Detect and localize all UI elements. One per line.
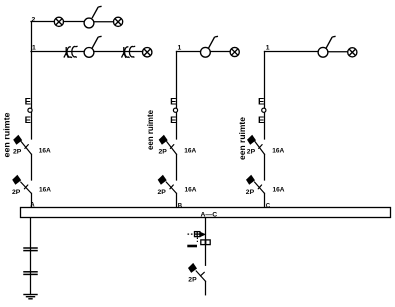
svg-text:1: 1 bbox=[266, 44, 270, 51]
ground bbox=[24, 295, 37, 299]
RCD trip unit dashed link bbox=[188, 234, 198, 242]
svg-text:16A: 16A bbox=[184, 148, 196, 155]
switch SA1 bbox=[84, 6, 102, 28]
svg-text:een ruimte: een ruimte bbox=[2, 112, 11, 158]
lamp EL1 bbox=[54, 17, 63, 26]
node circle circuit 1 bbox=[28, 108, 32, 112]
breaker QF1 body bbox=[13, 135, 22, 145]
svg-text:E: E bbox=[25, 96, 31, 107]
breaker QF2 blade bbox=[21, 182, 32, 193]
svg-text:2P: 2P bbox=[247, 148, 256, 155]
socket XS2 bbox=[122, 46, 136, 58]
svg-text:16A: 16A bbox=[185, 187, 197, 194]
svg-text:E: E bbox=[258, 115, 264, 126]
svg-text:16A: 16A bbox=[39, 187, 51, 194]
breaker QF1 blade bbox=[21, 142, 31, 155]
wire to bus circuit 3 bbox=[264, 193, 266, 208]
svg-text:16A: 16A bbox=[272, 148, 284, 155]
svg-text:2P: 2P bbox=[159, 148, 168, 155]
svg-text:A—C: A—C bbox=[201, 212, 218, 219]
svg-text:een ruimte: een ruimte bbox=[146, 109, 155, 150]
branch circuit 2 riser wire bbox=[176, 52, 178, 140]
breaker QF7 body bbox=[188, 263, 197, 273]
breaker QF3 blade bbox=[167, 142, 177, 155]
wire row 2 bbox=[31, 21, 114, 23]
breaker QF5 blade bbox=[255, 142, 265, 155]
node circle circuit 3 bbox=[262, 108, 266, 112]
breaker QF4 body bbox=[158, 175, 167, 185]
joint J1 bbox=[24, 248, 37, 251]
svg-text:een ruimte: een ruimte bbox=[238, 116, 247, 160]
RCD toroid sensor bbox=[201, 240, 210, 245]
wire row 1 bbox=[31, 51, 143, 53]
svg-text:1: 1 bbox=[178, 44, 182, 51]
lamp EL4 bbox=[230, 47, 239, 56]
breaker QF7 blade bbox=[196, 271, 206, 282]
socket XS1 bbox=[64, 46, 78, 58]
breaker QF6 blade bbox=[255, 182, 265, 193]
lamp EL2 bbox=[114, 17, 123, 26]
RCD actuator arrow bbox=[200, 232, 206, 237]
svg-text:2P: 2P bbox=[12, 189, 21, 196]
breaker QF3 body bbox=[159, 135, 168, 145]
breaker QF2 body bbox=[12, 175, 21, 185]
wire to bus circuit 2 bbox=[176, 193, 178, 208]
svg-text:E: E bbox=[170, 115, 176, 126]
breaker QF5 body bbox=[247, 135, 256, 145]
svg-text:E: E bbox=[258, 96, 264, 107]
breaker QF6 body bbox=[246, 175, 255, 185]
switch SA4 bbox=[318, 36, 336, 57]
wire between breakers circuit 3 bbox=[264, 154, 266, 180]
PE riser below bus bbox=[30, 218, 32, 295]
wire row circuit 2 bbox=[177, 51, 231, 53]
wire to bus circuit 1 bbox=[31, 193, 33, 208]
switch SA2 bbox=[84, 36, 102, 57]
svg-text:16A: 16A bbox=[273, 187, 285, 194]
breaker QF4 blade bbox=[166, 182, 176, 193]
outgoing feeder wire bbox=[205, 218, 207, 265]
node circle circuit 2 bbox=[173, 108, 177, 112]
svg-text:1: 1 bbox=[32, 44, 36, 51]
joint J2 bbox=[24, 272, 37, 275]
RCD coil bar bbox=[187, 245, 197, 248]
RCD trip unit box bbox=[195, 232, 200, 237]
svg-text:16A: 16A bbox=[39, 148, 51, 155]
svg-text:2P: 2P bbox=[13, 148, 22, 155]
wire row circuit 3 bbox=[265, 51, 348, 53]
lamp EL5 bbox=[348, 48, 357, 57]
wire between breakers circuit 1 bbox=[31, 154, 33, 180]
branch circuit 1 riser wire bbox=[31, 22, 33, 140]
busbar bbox=[21, 208, 391, 218]
svg-text:2P: 2P bbox=[246, 189, 255, 196]
svg-text:2P: 2P bbox=[158, 189, 167, 196]
switch SA3 bbox=[201, 36, 219, 57]
wire between breakers circuit 2 bbox=[176, 154, 178, 180]
svg-text:2: 2 bbox=[32, 16, 36, 23]
lamp EL3 bbox=[143, 48, 152, 57]
svg-text:E: E bbox=[170, 96, 176, 107]
svg-text:2P: 2P bbox=[188, 276, 197, 283]
branch circuit 3 riser wire bbox=[264, 52, 266, 140]
outgoing feeder tail wire bbox=[205, 281, 207, 294]
svg-text:E: E bbox=[25, 115, 31, 126]
